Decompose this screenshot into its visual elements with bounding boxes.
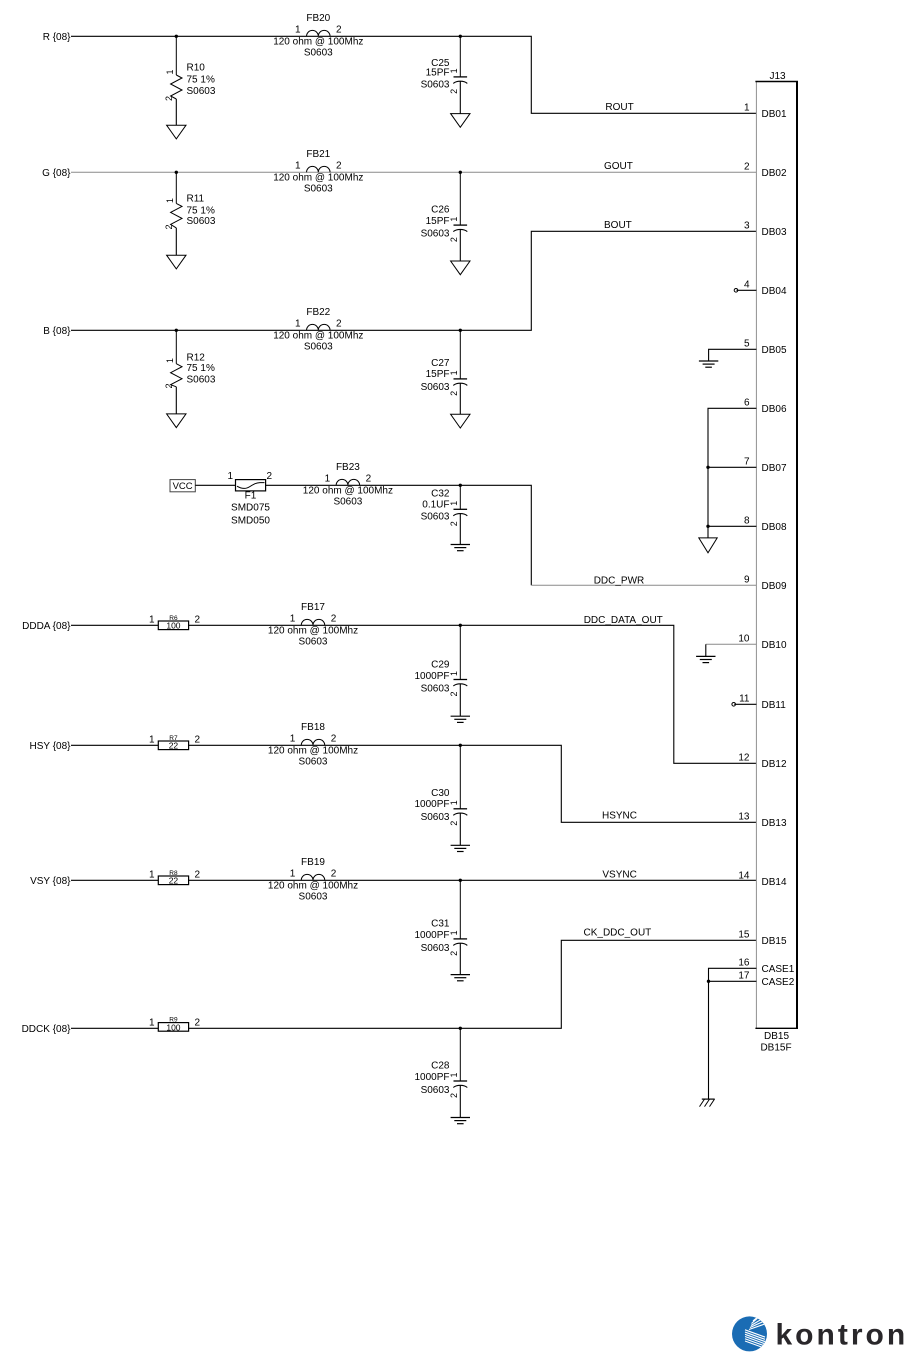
pin 14 DB14 (738, 871, 787, 888)
svg-text:100: 100 (166, 1022, 180, 1032)
ferrite bead FB17 (268, 602, 358, 647)
svg-text:J13: J13 (769, 71, 786, 82)
svg-text:10: 10 (738, 634, 750, 645)
node B {08} (43, 326, 71, 337)
ground pin 5 (699, 361, 718, 367)
ground pins 6-8 (699, 538, 717, 553)
svg-text:SMD050: SMD050 (231, 515, 270, 526)
svg-text:DB05: DB05 (762, 345, 787, 356)
svg-text:FB21: FB21 (306, 149, 330, 160)
svg-text:C29: C29 (431, 659, 450, 670)
svg-text:B {08}: B {08} (43, 326, 71, 337)
wire CASE1-CASE2 tied (709, 968, 757, 1099)
svg-text:1: 1 (165, 358, 175, 363)
capacitor C31 (414, 880, 467, 974)
pin 12 DB12 (738, 753, 787, 770)
svg-text:2: 2 (449, 691, 459, 696)
svg-text:HSY {08}: HSY {08} (30, 741, 72, 752)
svg-text:2: 2 (331, 613, 337, 624)
svg-text:2: 2 (744, 162, 750, 173)
svg-text:13: 13 (738, 812, 750, 823)
connector J13 (755, 71, 798, 1054)
svg-text:DB03: DB03 (762, 227, 787, 238)
svg-text:kontron: kontron (776, 1319, 908, 1352)
net label GOUT (604, 161, 633, 172)
svg-text:15: 15 (738, 930, 750, 941)
svg-text:S0603: S0603 (421, 812, 450, 823)
svg-text:S0603: S0603 (299, 756, 328, 767)
svg-text:C28: C28 (431, 1061, 450, 1072)
svg-text:120 ohm @ 100Mhz: 120 ohm @ 100Mhz (273, 331, 363, 342)
svg-text:120 ohm @ 100Mhz: 120 ohm @ 100Mhz (268, 626, 358, 637)
svg-text:1: 1 (449, 930, 459, 935)
capacitor C27 (421, 330, 468, 414)
svg-text:FB22: FB22 (306, 307, 330, 318)
svg-text:DB02: DB02 (762, 168, 787, 179)
svg-text:7: 7 (744, 457, 750, 468)
pin 11 DB11 (739, 694, 786, 711)
svg-text:1: 1 (149, 735, 155, 746)
svg-text:FB23: FB23 (336, 462, 360, 473)
svg-text:DB11: DB11 (762, 700, 787, 711)
capacitor C30 (414, 745, 467, 845)
svg-text:FB20: FB20 (306, 13, 330, 24)
svg-text:S0603: S0603 (304, 341, 333, 352)
svg-text:0.1UF: 0.1UF (422, 499, 449, 510)
svg-text:DDCK {08}: DDCK {08} (22, 1024, 72, 1035)
svg-text:HSYNC: HSYNC (602, 811, 637, 822)
net label CK_DDC_OUT (584, 927, 652, 938)
svg-text:C30: C30 (431, 788, 450, 799)
svg-text:2: 2 (195, 1018, 201, 1029)
svg-text:DB14: DB14 (762, 877, 787, 888)
svg-text:15PF: 15PF (426, 216, 450, 227)
svg-text:2: 2 (449, 1093, 459, 1098)
svg-text:DDDA {08}: DDDA {08} (22, 621, 71, 632)
net label HSYNC (602, 811, 637, 822)
svg-text:22: 22 (169, 741, 179, 751)
svg-text:S0603: S0603 (421, 512, 450, 523)
resistor R6 (149, 615, 201, 631)
wire VCC to fuse (195, 484, 235, 486)
pin 1 DB01 (744, 103, 787, 120)
svg-text:DB04: DB04 (762, 286, 787, 297)
ground C32 (451, 545, 470, 551)
svg-text:9: 9 (744, 575, 750, 586)
svg-text:FB18: FB18 (301, 722, 325, 733)
junction R/C25 (459, 35, 462, 38)
svg-text:1000PF: 1000PF (414, 1072, 449, 1083)
junction HSY/C30 (459, 744, 462, 747)
junction DDDA/C29 (459, 624, 462, 627)
chassis ground CASE (700, 1099, 715, 1107)
svg-text:DB06: DB06 (762, 404, 787, 415)
svg-text:12: 12 (738, 753, 750, 764)
svg-text:2: 2 (195, 870, 201, 881)
ground C31 (451, 975, 470, 981)
svg-text:R10: R10 (187, 62, 206, 73)
junction G/R11 (175, 171, 178, 174)
svg-text:5: 5 (744, 339, 750, 350)
svg-text:GOUT: GOUT (604, 161, 633, 172)
wire B row to pin 3 (BOUT) (71, 231, 756, 330)
svg-text:DB13: DB13 (762, 818, 787, 829)
svg-text:75 1%: 75 1% (187, 74, 215, 85)
svg-text:VSY {08}: VSY {08} (30, 876, 71, 887)
svg-text:DB01: DB01 (762, 109, 787, 120)
resistor R9 (149, 1016, 201, 1032)
svg-text:17: 17 (738, 971, 750, 982)
junction VSY/C31 (459, 879, 462, 882)
ground R12 (167, 414, 186, 428)
wire HSY row to pin 13 (HSYNC) (71, 745, 756, 822)
ground C27 (451, 414, 470, 428)
svg-text:8: 8 (744, 516, 750, 527)
svg-text:DDC_PWR: DDC_PWR (594, 575, 645, 586)
svg-text:120 ohm @ 100Mhz: 120 ohm @ 100Mhz (268, 746, 358, 757)
ferrite bead FB23 (303, 462, 393, 507)
capacitor C32 (421, 485, 468, 544)
ferrite bead FB18 (268, 722, 358, 767)
svg-text:SMD075: SMD075 (231, 503, 270, 514)
svg-text:2: 2 (336, 24, 342, 35)
svg-text:1: 1 (290, 733, 296, 744)
junction B/R12 (175, 329, 178, 332)
svg-text:1000PF: 1000PF (414, 799, 449, 810)
pin 9 DB09 (744, 575, 787, 592)
svg-text:S0603: S0603 (421, 229, 450, 240)
svg-text:2: 2 (267, 471, 273, 482)
svg-text:120 ohm @ 100Mhz: 120 ohm @ 100Mhz (268, 881, 358, 892)
svg-text:CK_DDC_OUT: CK_DDC_OUT (584, 927, 652, 938)
svg-text:R11: R11 (187, 193, 205, 204)
svg-text:S0603: S0603 (333, 496, 362, 507)
svg-text:S0603: S0603 (421, 684, 450, 695)
wire VSY row to pin 14 (VSYNC) (71, 879, 756, 881)
node HSY {08} (30, 741, 72, 752)
svg-text:2: 2 (164, 224, 174, 229)
svg-text:S0603: S0603 (299, 891, 328, 902)
ground R10 (167, 125, 186, 139)
svg-text:S0603: S0603 (187, 86, 216, 97)
svg-text:S0603: S0603 (421, 382, 450, 393)
pin 4 DB04 (744, 280, 787, 297)
ferrite bead FB20 (273, 13, 363, 58)
svg-text:1000PF: 1000PF (414, 930, 449, 941)
svg-text:FB19: FB19 (301, 857, 325, 868)
pin 8 DB08 (744, 516, 787, 533)
svg-text:S0603: S0603 (304, 183, 333, 194)
junction pin 8 (706, 525, 709, 528)
capacitor C25 (421, 36, 468, 113)
svg-text:S0603: S0603 (304, 47, 333, 58)
junction CASE2 (707, 980, 710, 983)
svg-text:C31: C31 (431, 919, 450, 930)
pin 2 DB02 (744, 162, 787, 179)
svg-text:11: 11 (739, 694, 750, 705)
node DDDA {08} (22, 621, 71, 632)
svg-text:1: 1 (449, 800, 459, 805)
svg-text:DB15: DB15 (762, 936, 787, 947)
svg-text:DB15: DB15 (764, 1031, 789, 1042)
svg-text:1: 1 (449, 217, 459, 222)
pin 13 DB13 (738, 812, 787, 829)
junction G/C26 (459, 171, 462, 174)
svg-text:2: 2 (449, 951, 459, 956)
net label ROUT (605, 102, 633, 113)
svg-text:75 1%: 75 1% (187, 205, 215, 216)
svg-text:1: 1 (227, 471, 233, 482)
svg-text:DB07: DB07 (762, 463, 787, 474)
svg-text:120 ohm @ 100Mhz: 120 ohm @ 100Mhz (303, 486, 393, 497)
junction B/C27 (459, 329, 462, 332)
svg-text:1000PF: 1000PF (414, 671, 449, 682)
svg-text:22: 22 (169, 876, 179, 886)
ferrite bead FB19 (268, 857, 358, 902)
junction DDCK/C28 (459, 1027, 462, 1030)
svg-text:S0603: S0603 (421, 1085, 450, 1096)
svg-text:DDC_DATA_OUT: DDC_DATA_OUT (584, 615, 663, 626)
svg-text:S0603: S0603 (299, 636, 328, 647)
svg-text:1: 1 (295, 160, 301, 171)
svg-text:2: 2 (195, 735, 201, 746)
svg-text:C27: C27 (431, 358, 450, 369)
svg-text:2: 2 (195, 615, 201, 626)
svg-text:1: 1 (165, 198, 175, 203)
svg-text:1: 1 (165, 69, 175, 74)
fuse F1 (227, 471, 272, 526)
power symbol VCC (170, 480, 195, 493)
wire R row to pin 1 (ROUT) (71, 36, 756, 113)
svg-text:16: 16 (738, 958, 750, 969)
svg-text:2: 2 (164, 96, 174, 101)
net label BOUT (604, 220, 632, 231)
resistor R8 (149, 870, 201, 886)
svg-text:4: 4 (744, 280, 750, 291)
net label DDC_DATA_OUT (584, 615, 663, 626)
pin 16 CASE1 (738, 958, 794, 975)
wire DDCK row to pin 15 (CK_DDC_OUT) (71, 940, 756, 1028)
node DDCK {08} (22, 1024, 72, 1035)
svg-text:15PF: 15PF (426, 68, 450, 79)
ground pin 10 (696, 656, 715, 662)
junction VCC/C32 (459, 484, 462, 487)
svg-text:S0603: S0603 (187, 216, 216, 227)
svg-text:VSYNC: VSYNC (602, 869, 636, 880)
svg-text:2: 2 (449, 237, 459, 242)
svg-text:1: 1 (290, 868, 296, 879)
svg-text:2: 2 (336, 160, 342, 171)
svg-text:S0603: S0603 (421, 943, 450, 954)
ferrite bead FB22 (273, 307, 363, 352)
capacitor C28 (414, 1028, 467, 1117)
svg-text:1: 1 (449, 370, 459, 375)
svg-text:1: 1 (149, 615, 155, 626)
svg-text:15PF: 15PF (426, 369, 450, 380)
svg-text:2: 2 (336, 318, 342, 329)
svg-text:1: 1 (149, 870, 155, 881)
svg-text:1: 1 (449, 671, 459, 676)
pin 5 DB05 (744, 339, 787, 356)
svg-text:ROUT: ROUT (605, 102, 633, 113)
svg-text:S0603: S0603 (421, 80, 450, 91)
svg-text:1: 1 (149, 1018, 155, 1029)
svg-text:DB15F: DB15F (760, 1043, 791, 1054)
ground C28 (451, 1118, 470, 1124)
svg-text:FB17: FB17 (301, 602, 325, 613)
svg-text:2: 2 (331, 733, 337, 744)
resistor R7 (149, 735, 201, 751)
capacitor C26 (421, 172, 468, 261)
pin 3 DB03 (744, 221, 787, 238)
junction pin 7 (706, 466, 709, 469)
svg-text:1: 1 (449, 68, 459, 73)
no-connect pin 4 (734, 289, 756, 293)
svg-text:120 ohm @ 100Mhz: 120 ohm @ 100Mhz (273, 173, 363, 184)
svg-text:S0603: S0603 (187, 374, 216, 385)
ground C29 (451, 716, 470, 722)
svg-text:75 1%: 75 1% (187, 363, 215, 374)
svg-text:1: 1 (744, 103, 750, 114)
svg-text:DB12: DB12 (762, 759, 787, 770)
svg-text:1: 1 (295, 24, 301, 35)
svg-text:6: 6 (744, 398, 750, 409)
node VSY {08} (30, 876, 71, 887)
ferrite bead FB21 (273, 149, 363, 194)
svg-text:C26: C26 (431, 204, 450, 215)
svg-text:2: 2 (366, 473, 372, 484)
svg-text:DB08: DB08 (762, 522, 787, 533)
svg-text:G {08}: G {08} (42, 168, 71, 179)
wire G row to pin 2 (GOUT) (71, 171, 756, 173)
svg-text:2: 2 (331, 868, 337, 879)
svg-text:3: 3 (744, 221, 750, 232)
svg-text:2: 2 (449, 521, 459, 526)
svg-text:1: 1 (449, 1072, 459, 1077)
pin 6 DB06 (744, 398, 787, 415)
svg-text:120 ohm @ 100Mhz: 120 ohm @ 100Mhz (273, 37, 363, 48)
svg-text:BOUT: BOUT (604, 220, 632, 231)
wire pin 5 to ground (709, 349, 757, 361)
net label VSYNC (602, 869, 636, 880)
net label DDC_PWR (594, 575, 645, 586)
resistor R11 (164, 172, 216, 255)
ground C26 (451, 261, 470, 275)
ground C25 (451, 114, 470, 128)
svg-text:F1: F1 (245, 491, 257, 502)
node R {08} (43, 32, 71, 43)
junction R/R10 (175, 35, 178, 38)
svg-text:14: 14 (738, 871, 750, 882)
ground R11 (167, 255, 186, 269)
pin 15 DB15 (738, 930, 787, 947)
wire pin 10 to ground (706, 644, 757, 656)
svg-text:2: 2 (449, 391, 459, 396)
pin 17 CASE2 (738, 971, 794, 988)
ground C30 (451, 845, 470, 851)
svg-text:100: 100 (166, 621, 180, 631)
svg-text:R {08}: R {08} (43, 32, 71, 43)
svg-text:CASE1: CASE1 (762, 964, 795, 975)
svg-text:VCC: VCC (173, 481, 193, 492)
svg-text:2: 2 (164, 383, 174, 388)
wire VCC row to DDC_PWR pin 9 (266, 485, 757, 585)
wire DDDA row to pin 12 (DDC_DATA_OUT) (71, 625, 756, 763)
capacitor C29 (414, 625, 467, 716)
svg-text:1: 1 (290, 613, 296, 624)
resistor R12 (164, 330, 216, 414)
svg-text:1: 1 (449, 501, 459, 506)
svg-text:C32: C32 (431, 488, 450, 499)
pin 7 DB07 (744, 457, 787, 474)
Kontron logo (732, 1316, 908, 1352)
svg-text:1: 1 (295, 318, 301, 329)
svg-text:DB10: DB10 (762, 640, 787, 651)
svg-text:2: 2 (449, 89, 459, 94)
svg-text:DB09: DB09 (762, 581, 787, 592)
pin 10 DB10 (738, 634, 787, 651)
no-connect pin 11 (732, 703, 757, 707)
wire pins 6-7-8 tied (708, 408, 756, 538)
resistor R10 (164, 36, 216, 125)
svg-text:CASE2: CASE2 (762, 977, 795, 988)
svg-text:1: 1 (325, 473, 331, 484)
svg-text:2: 2 (449, 821, 459, 826)
node G {08} (42, 168, 71, 179)
